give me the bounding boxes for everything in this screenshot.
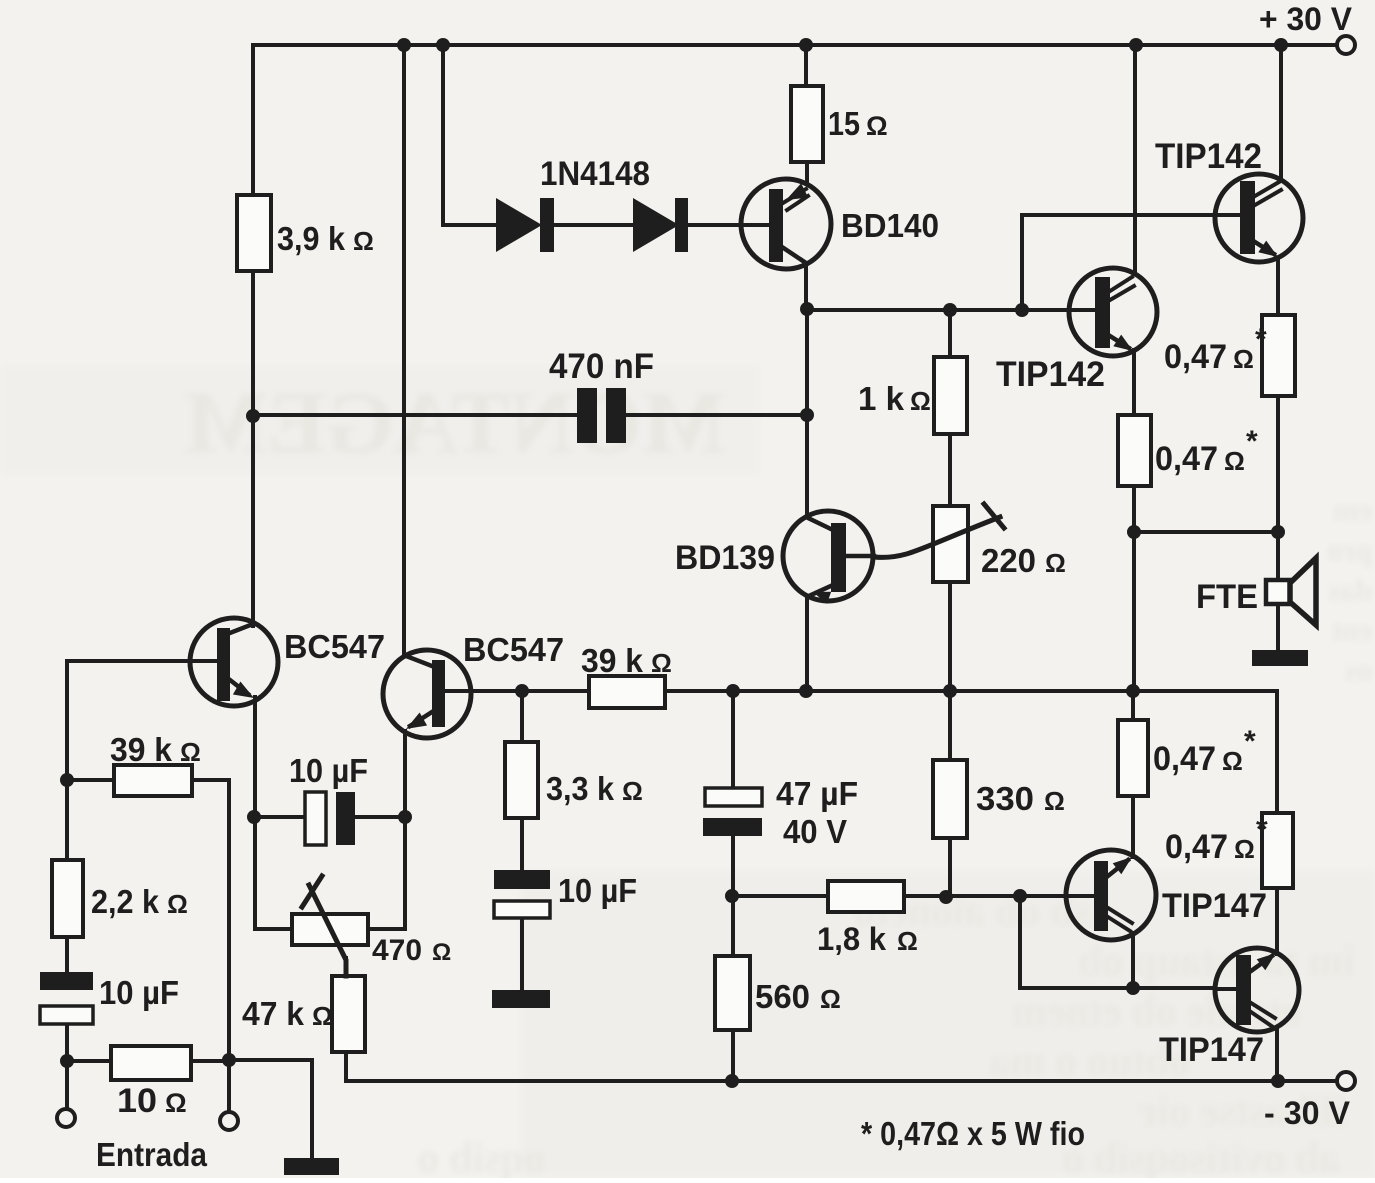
- svg-text:1 k: 1 k: [858, 380, 905, 417]
- svg-text:40 V: 40 V: [783, 813, 847, 850]
- svg-text:Ω: Ω: [866, 111, 888, 141]
- svg-text:em: em: [1334, 494, 1372, 527]
- svg-text:Ω: Ω: [167, 889, 188, 919]
- svg-text:Ω: Ω: [180, 737, 201, 767]
- svg-text:Ω: Ω: [1044, 786, 1065, 816]
- svg-text:470: 470: [372, 934, 422, 967]
- svg-text:39 k: 39 k: [110, 731, 173, 768]
- svg-text:BD139: BD139: [675, 539, 775, 577]
- svg-text:ab ovitisoqsib o: ab ovitisoqsib o: [1062, 1136, 1340, 1178]
- svg-text:10: 10: [117, 1082, 157, 1120]
- svg-text:oqsib o: oqsib o: [418, 1136, 545, 1178]
- svg-text:330: 330: [976, 780, 1034, 817]
- svg-text:3,3 k: 3,3 k: [546, 770, 615, 807]
- svg-text:Ω: Ω: [432, 939, 451, 966]
- svg-text:Ω: Ω: [820, 984, 841, 1014]
- svg-text:*: *: [1256, 813, 1268, 846]
- svg-text:220: 220: [981, 542, 1036, 579]
- svg-text:Ω: Ω: [1234, 834, 1255, 864]
- svg-text:TIP147: TIP147: [1162, 887, 1267, 925]
- svg-text:* 0,47Ω x 5 W fio: * 0,47Ω x 5 W fio: [861, 1115, 1085, 1152]
- svg-text:47 k: 47 k: [242, 995, 305, 1032]
- svg-text:0,47: 0,47: [1165, 828, 1228, 866]
- svg-text:BC547: BC547: [284, 628, 385, 665]
- svg-text:1,8 k: 1,8 k: [817, 921, 886, 957]
- svg-text:BC547: BC547: [463, 631, 564, 668]
- svg-text:*: *: [1255, 323, 1267, 356]
- svg-text:0,47: 0,47: [1153, 740, 1216, 778]
- svg-text:15: 15: [828, 105, 860, 142]
- svg-text:pro: pro: [1328, 534, 1372, 567]
- svg-text:*: *: [1244, 725, 1256, 758]
- svg-text:FTE: FTE: [1196, 578, 1258, 616]
- svg-text:47 µF: 47 µF: [776, 775, 858, 812]
- svg-text:TIP142: TIP142: [996, 355, 1105, 394]
- svg-text:*: *: [1246, 425, 1258, 458]
- svg-text:560: 560: [755, 978, 810, 1015]
- svg-text:os: os: [1345, 654, 1372, 687]
- svg-text:Ω: Ω: [622, 776, 643, 806]
- svg-text:TIP142: TIP142: [1155, 137, 1262, 176]
- svg-text:ent: ent: [1332, 614, 1372, 647]
- svg-text:Ω: Ω: [910, 386, 931, 416]
- svg-text:Ω: Ω: [651, 648, 672, 678]
- svg-text:Ω: Ω: [897, 926, 918, 956]
- svg-text:Ω: Ω: [353, 226, 374, 256]
- svg-text:Ω: Ω: [312, 1001, 333, 1031]
- svg-text:+ 30 V: + 30 V: [1259, 1, 1353, 37]
- svg-text:BD140: BD140: [841, 207, 939, 244]
- svg-text:Ω: Ω: [1233, 344, 1254, 374]
- svg-text:MONTAGEM: MONTAGEM: [184, 375, 725, 472]
- svg-text:- 30 V: - 30 V: [1264, 1095, 1351, 1131]
- svg-text:das: das: [1329, 574, 1372, 607]
- svg-text:Ω: Ω: [165, 1088, 187, 1118]
- svg-text:TIP147: TIP147: [1159, 1031, 1264, 1069]
- svg-text:0,47: 0,47: [1155, 440, 1218, 478]
- svg-text:1N4148: 1N4148: [540, 155, 650, 193]
- svg-text:3,9 k: 3,9 k: [277, 220, 346, 257]
- svg-text:ete ale ob etnem: ete ale ob etnem: [1012, 989, 1300, 1035]
- svg-text:39 k: 39 k: [581, 642, 644, 679]
- svg-text:10 µF: 10 µF: [99, 974, 179, 1011]
- svg-text:10 µF: 10 µF: [289, 752, 368, 789]
- svg-text:Ω: Ω: [1224, 446, 1245, 476]
- svg-text:Entrada: Entrada: [96, 1136, 208, 1173]
- svg-text:Ω: Ω: [1045, 548, 1066, 578]
- svg-text:2,2 k: 2,2 k: [91, 883, 160, 920]
- svg-text:470 nF: 470 nF: [549, 347, 654, 386]
- svg-text:0,47: 0,47: [1164, 338, 1227, 376]
- svg-text:10 µF: 10 µF: [558, 872, 637, 909]
- svg-text:Ω: Ω: [1222, 746, 1243, 776]
